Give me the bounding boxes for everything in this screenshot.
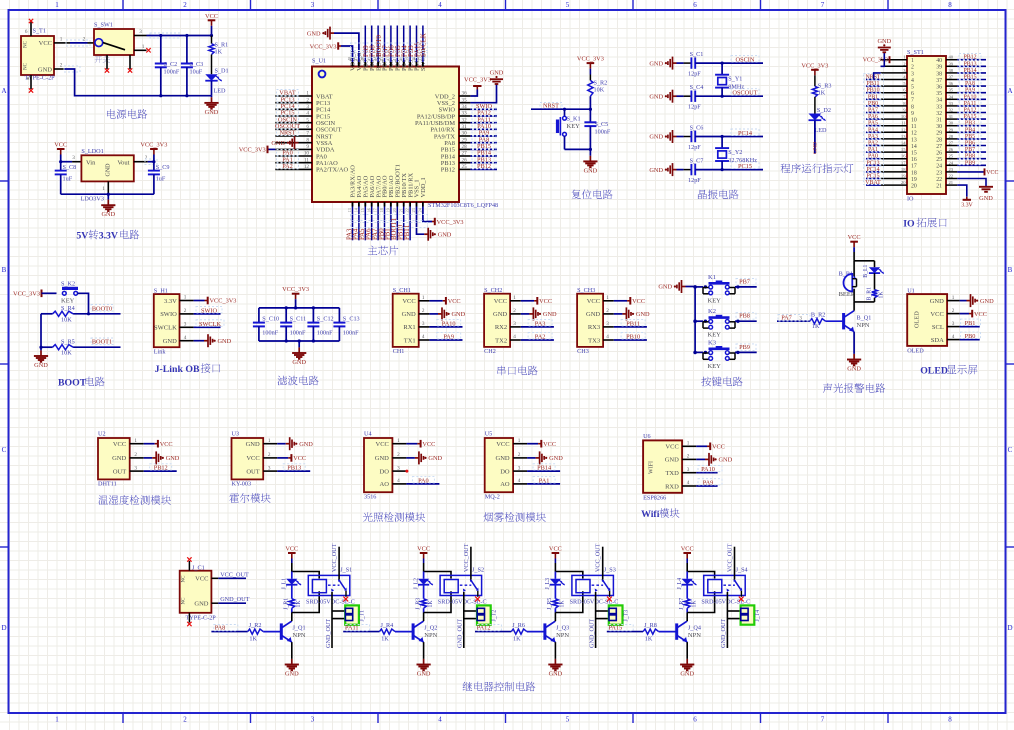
svg-text:18: 18 [911, 170, 917, 176]
net label PB0 [961, 332, 981, 339]
wire pin 46 up [364, 26, 366, 63]
junction crystal tap [721, 135, 724, 138]
svg-text:VCC_3V3: VCC_3V3 [437, 219, 464, 226]
svg-text:J_L2: J_L2 [413, 578, 419, 590]
svg-text:20: 20 [392, 208, 397, 212]
svg-text:3.3V: 3.3V [164, 298, 177, 305]
ground GND for S_C4 [673, 95, 677, 97]
pin 33 of S_U1 [459, 115, 470, 117]
wire key K3 to net PB9 [735, 351, 757, 353]
svg-text:GND_OUT: GND_OUT [457, 619, 464, 648]
pin 5 of S_ST1 [881, 85, 907, 87]
wire node down to key [564, 109, 566, 116]
svg-text:GND: GND [299, 441, 313, 448]
no-connect X bottom of J_C1 [187, 622, 191, 626]
power VCC on S_CH3 pin 1 [614, 300, 627, 302]
pin 16 of S_ST1 [881, 158, 907, 160]
net label PA11 [346, 625, 370, 631]
power VCC on U4 pin 1 [406, 443, 417, 445]
wire to net label PA8 [957, 85, 986, 87]
wire pin 45 up [371, 26, 373, 63]
svg-text:18: 18 [901, 167, 906, 172]
net label NRST [540, 103, 562, 109]
svg-text:J_R7: J_R7 [679, 598, 685, 610]
wire R3 to LED D2 [814, 97, 816, 114]
svg-text:SWIO: SWIO [160, 311, 177, 318]
junction trunk K1 [693, 285, 697, 289]
svg-text:S_C3: S_C3 [190, 61, 204, 68]
pin 2 of S_CH3 [603, 313, 614, 315]
net label PB13 [283, 464, 305, 470]
capacitor S_C7 12pF [690, 164, 692, 175]
wire to net label PB1 [866, 98, 881, 100]
net label PA10 [437, 319, 461, 326]
no-connect X top of J_C1 [187, 557, 191, 561]
svg-text:PA11: PA11 [345, 625, 359, 632]
svg-text:10: 10 [304, 151, 310, 157]
power VCC_3V3 reset [587, 62, 595, 64]
net label PC15 [277, 110, 299, 116]
frame row ticks right [1006, 180, 1014, 182]
pin 2 of S_U1 [275, 102, 312, 104]
svg-text:DO: DO [500, 468, 510, 475]
wire GND_OUT [218, 602, 246, 604]
svg-text:PA11: PA11 [964, 101, 977, 107]
pin 18 of S_U1 [384, 202, 386, 207]
title 滤波电路 [277, 376, 287, 386]
svg-text:S_C10: S_C10 [262, 315, 279, 322]
svg-text:A: A [1, 87, 6, 95]
net label PB15 [959, 73, 981, 79]
svg-text:Vin: Vin [86, 159, 96, 166]
net label PB14 [959, 67, 981, 73]
pin 21 of S_U1 [403, 202, 405, 207]
net label PB1 [864, 93, 884, 99]
relay common wire VCC_OUT [338, 547, 340, 580]
svg-text:GND: GND [417, 671, 431, 678]
pin 25 of S_ST1 [946, 158, 957, 160]
svg-text:100nF: 100nF [595, 129, 611, 136]
svg-text:J_S4: J_S4 [736, 567, 748, 574]
wire LED down [814, 121, 816, 154]
wire to net label PA9 [696, 485, 717, 487]
svg-text:B: B [1008, 266, 1013, 274]
wire to net label PA1 [866, 151, 881, 153]
pin 3 of U4 [392, 470, 406, 472]
svg-text:1K: 1K [428, 600, 434, 608]
svg-text:CH2: CH2 [484, 348, 496, 355]
svg-text:11: 11 [304, 157, 309, 163]
svg-text:RX1: RX1 [403, 324, 415, 331]
svg-text:IO: IO [903, 219, 915, 230]
svg-text:S_C4: S_C4 [690, 84, 704, 91]
wire VCC to R2 [589, 69, 591, 75]
svg-text:GND_OUT: GND_OUT [588, 619, 595, 648]
pin 23 of S_U1 [416, 202, 418, 207]
ground GND on S_CH1 pin 2 [429, 313, 438, 315]
capacitor S_C5 100nF [589, 109, 591, 122]
wire pin 14 down [358, 207, 360, 241]
svg-text:S_D1: S_D1 [215, 68, 229, 75]
net label PB7 [736, 278, 756, 285]
svg-text:GND: GND [292, 359, 306, 366]
capacitor S_C11 100nF [285, 308, 287, 323]
power VCC on U5 pin 1 [527, 443, 538, 445]
pin 3 of U3 [263, 470, 277, 472]
wire left rail to R4 [41, 313, 53, 315]
svg-text:36: 36 [462, 91, 468, 97]
wire input net PA12 [475, 631, 511, 633]
svg-text:PA2/TX/AO: PA2/TX/AO [316, 167, 348, 174]
wire alarm bottom rail [854, 301, 874, 303]
ground GND on VSS_1 pin 23 [417, 207, 425, 235]
junction bottom C11 [285, 339, 288, 342]
pin 31 of S_ST1 [946, 118, 957, 120]
wire alarm top rail [854, 260, 874, 262]
svg-text:GND: GND [649, 93, 663, 100]
svg-text:S_H1: S_H1 [154, 287, 168, 294]
pin 14 of S_ST1 [881, 145, 907, 147]
svg-text:34: 34 [462, 104, 468, 110]
no-connect X on switch pin 1 [146, 48, 150, 52]
svg-text:3: 3 [422, 321, 425, 327]
svg-text:RXD: RXD [665, 483, 679, 490]
svg-text:40: 40 [936, 58, 942, 64]
svg-text:B_Q1: B_Q1 [857, 314, 872, 321]
pin 2 of S_ST1 [881, 65, 907, 67]
pin 1 of U6 [682, 445, 696, 447]
wire on S_ST1 pin 3 [874, 73, 881, 80]
power VCC_3V3 on S_ST1 pin 1 [889, 56, 891, 63]
wire pin 43 up [384, 26, 386, 63]
wire pin 17 down [377, 207, 379, 241]
svg-text:GND: GND [496, 455, 510, 462]
svg-text:3: 3 [518, 465, 521, 471]
pin 4 of U1 [947, 339, 960, 341]
wire key K1 to net PB7 [735, 286, 757, 288]
wire to net label PB3 [957, 125, 986, 127]
svg-text:GND: GND [549, 455, 563, 462]
junction trunk K3 [693, 351, 697, 355]
svg-text:GND: GND [719, 457, 733, 464]
pin 1 of S_CH2 [510, 300, 521, 302]
svg-text:25: 25 [462, 164, 468, 170]
wire pin 18 down [384, 207, 386, 241]
svg-text:S_R4: S_R4 [61, 305, 75, 312]
svg-text:KY-003: KY-003 [232, 481, 252, 488]
svg-text:4: 4 [911, 78, 914, 84]
wire trunk to key K3 [695, 351, 703, 353]
svg-text:S_T1: S_T1 [33, 28, 46, 35]
title 晶振电路 [698, 190, 707, 199]
wire R2 to node [589, 96, 591, 109]
net label OSCIN [277, 116, 299, 122]
svg-text:4: 4 [606, 334, 609, 340]
unconnected pin 3 of U4 [405, 470, 408, 473]
svg-text:PC15: PC15 [866, 174, 879, 180]
value label 开关 of S_SW1 [95, 56, 102, 63]
wire rail to collector [853, 302, 855, 311]
no-connect X relay NO contact [609, 591, 611, 597]
pin 2 of S_H1 [180, 313, 194, 315]
wire to net label PA2 [521, 339, 554, 341]
svg-text:OLED: OLED [907, 348, 924, 355]
junction top C12 [312, 306, 315, 309]
svg-text:21: 21 [398, 208, 403, 212]
svg-text:3.3V: 3.3V [99, 231, 118, 242]
svg-text:8: 8 [911, 104, 914, 110]
net label PA10 [472, 123, 496, 129]
svg-text:NPN: NPN [424, 632, 437, 639]
no-connect X relay NO contact [345, 591, 347, 597]
pin 1 of switch S_SW1 [134, 49, 147, 51]
svg-text:19: 19 [901, 174, 906, 179]
pin 3 of U6 [682, 472, 696, 474]
svg-text:PB6: PB6 [965, 141, 975, 147]
net label PC13 [864, 159, 884, 165]
wire GND to S_C4 [677, 95, 684, 97]
svg-text:LED: LED [214, 88, 227, 95]
wire to terminal pin 2 [727, 618, 740, 620]
svg-text:VCC: VCC [417, 546, 430, 553]
svg-text:2: 2 [83, 36, 86, 42]
wire collector [554, 613, 556, 622]
pin 37 of S_U1 [422, 62, 424, 67]
svg-text:PA9: PA9 [965, 88, 975, 94]
svg-text:3516: 3516 [364, 493, 376, 500]
ground GND for S_C7 [673, 169, 677, 171]
wire VCC to Vin [61, 161, 72, 163]
svg-text:2: 2 [513, 308, 516, 314]
svg-text:GND: GND [549, 671, 563, 678]
svg-text:26: 26 [462, 157, 468, 163]
svg-text:2: 2 [306, 97, 309, 103]
svg-text:6: 6 [693, 1, 697, 9]
junction VCC rail [210, 34, 213, 37]
svg-text:1K: 1K [879, 291, 885, 299]
svg-text:21: 21 [936, 184, 942, 190]
svg-text:DO: DO [380, 468, 390, 475]
svg-text:GND: GND [649, 60, 663, 67]
wire left rail to R5 [41, 346, 53, 348]
wire to net label PB7 [957, 151, 986, 153]
ground GND on S_CH2 pin 2 [521, 313, 530, 315]
wire LED to J_R3 [423, 585, 425, 599]
svg-text:STM32F103C8T6_LQFP48: STM32F103C8T6_LQFP48 [428, 202, 498, 209]
power VCC on S_CH2 pin 1 [521, 300, 534, 302]
svg-text:8: 8 [948, 1, 952, 9]
svg-text:10K: 10K [61, 350, 72, 357]
net label PA12 [472, 110, 496, 116]
ground GND on U2 pin 2 [144, 457, 153, 459]
svg-text:C: C [2, 446, 7, 454]
svg-text:S_C11: S_C11 [290, 315, 307, 322]
wire J_R6 to base [527, 631, 545, 633]
wire Vout to VCC_3V3 [145, 159, 157, 165]
net label PA3 [864, 133, 884, 139]
svg-text:35: 35 [949, 88, 954, 93]
svg-text:VCC: VCC [448, 298, 461, 305]
svg-text:1: 1 [518, 438, 521, 444]
resistor J_R8 1K [643, 629, 659, 634]
pin 3 of switch S_SW1 [134, 35, 147, 37]
power VCC top of rail [208, 19, 216, 21]
svg-text:2: 2 [134, 452, 137, 458]
svg-text:3: 3 [311, 1, 315, 9]
svg-text:VCC: VCC [543, 441, 556, 448]
svg-text:18: 18 [379, 208, 384, 212]
pin 31 of S_U1 [459, 128, 470, 130]
pin 29 of S_ST1 [946, 131, 957, 133]
svg-text:VCC: VCC [496, 441, 509, 448]
svg-text:VCC: VCC [39, 40, 52, 47]
svg-text:VCC: VCC [246, 455, 259, 462]
svg-text:GND_OUT: GND_OUT [720, 619, 727, 648]
pin 2 of U2 [130, 457, 144, 459]
pin 3 of U2 [130, 470, 144, 472]
svg-text:GND: GND [979, 195, 993, 202]
svg-text:PB3: PB3 [965, 121, 975, 127]
svg-text:VCC_3V3: VCC_3V3 [13, 291, 40, 298]
net label VBAT [277, 90, 299, 96]
net label VBAT [864, 179, 884, 185]
svg-text:2: 2 [952, 308, 955, 314]
relay NC contact wire [463, 592, 465, 648]
wire to net label PC13 [866, 164, 881, 166]
svg-text:S_C13: S_C13 [343, 315, 360, 322]
wire to net label PB0 [960, 339, 980, 341]
svg-text:J_R5: J_R5 [547, 598, 553, 610]
wire base to R2 [826, 320, 844, 322]
svg-text:PA7: PA7 [868, 108, 878, 114]
pin 20 of S_U1 [396, 202, 398, 207]
wire J_R2 to base [263, 631, 281, 633]
no-connect X on S_T1 pin 5 [29, 88, 33, 92]
pin 46 of S_U1 [364, 62, 366, 67]
title 电源电路 [107, 109, 116, 118]
svg-text:GND: GND [584, 167, 598, 174]
svg-text:PB12: PB12 [441, 167, 455, 174]
pin 3 of S_CH2 [510, 326, 521, 328]
svg-text:32.768KHz: 32.768KHz [728, 157, 757, 164]
svg-text:1: 1 [60, 36, 63, 42]
svg-text:3: 3 [397, 465, 400, 471]
wire to net label PB13 [470, 162, 497, 164]
svg-text:S_Y2: S_Y2 [728, 149, 742, 156]
svg-text:PB0: PB0 [868, 101, 878, 107]
svg-text:29: 29 [949, 127, 954, 132]
junction at key K2 output [736, 320, 739, 323]
pin 13 of S_ST1 [881, 138, 907, 140]
power 3.3V on S_ST1 pin 21 [957, 185, 967, 197]
svg-text:TXD: TXD [665, 470, 679, 477]
pin 3 of S_CH1 [419, 326, 430, 328]
svg-text:VCC_3V3: VCC_3V3 [239, 147, 266, 154]
pin 6 of S_ST1 [881, 92, 907, 94]
svg-text:PB10: PB10 [866, 88, 879, 94]
svg-text:PA2: PA2 [868, 141, 878, 147]
power VCC on U6 pin 1 [696, 445, 707, 447]
title 温湿度检测模块 [98, 495, 108, 504]
svg-text:S_ST1: S_ST1 [907, 49, 924, 56]
net label PB1 [961, 319, 981, 326]
svg-text:CH3: CH3 [577, 348, 589, 355]
svg-text:GND: GND [38, 66, 52, 73]
svg-text:U3: U3 [232, 431, 240, 438]
pin 4 of S_CH3 [603, 339, 614, 341]
wire pin 13 down [352, 207, 354, 241]
ground GND below power rail [211, 96, 213, 98]
pin 2 of switch S_SW1 [88, 42, 95, 44]
svg-text:PA3: PA3 [868, 134, 878, 140]
pin 3 of U1 [947, 326, 960, 328]
svg-text:KEY: KEY [708, 363, 722, 370]
power VCC relay ch2 [420, 552, 428, 554]
ground GND relay ch2 [423, 659, 425, 665]
pin 10 of S_ST1 [881, 118, 907, 120]
net label PB11 [864, 80, 884, 86]
relay common wire VCC_OUT [734, 547, 736, 580]
svg-text:KEY: KEY [567, 123, 581, 130]
wire to net label PA10 [429, 326, 462, 328]
ground GND for S_C6 [673, 136, 677, 138]
pin 4 of U6 [682, 485, 696, 487]
svg-text:VCC: VCC [54, 142, 67, 149]
svg-text:3: 3 [911, 71, 914, 77]
title 烟雾检测模块 [484, 512, 494, 521]
svg-text:7: 7 [306, 131, 309, 137]
svg-text:2: 2 [606, 308, 609, 314]
svg-text:ESP8266: ESP8266 [643, 495, 666, 502]
ground GND filter [298, 341, 300, 347]
wire collector [291, 613, 293, 622]
svg-text:7: 7 [821, 1, 825, 9]
wire GND of T1 to bottom rail [64, 66, 80, 72]
svg-text:3: 3 [513, 321, 516, 327]
pin 2 of S_CH1 [419, 313, 430, 315]
ground GND on U1 pin 1 [960, 300, 967, 302]
title 继电器控制电路 [463, 682, 473, 691]
net label PA0 [864, 153, 884, 159]
title 串口电路 [497, 366, 505, 376]
svg-text:1uF: 1uF [156, 176, 166, 183]
svg-text:GND: GND [285, 671, 299, 678]
title 霍尔模块 [229, 493, 239, 502]
wire to net label PB13 [277, 470, 310, 472]
svg-text:K3: K3 [708, 339, 716, 346]
svg-text:4: 4 [397, 478, 400, 484]
module U3 KY-003 [232, 438, 264, 479]
svg-text:J_R4: J_R4 [381, 622, 394, 629]
pin 32 of S_U1 [459, 122, 470, 124]
svg-text:VCC: VCC [632, 298, 645, 305]
svg-text:GND: GND [649, 167, 663, 174]
svg-text:PB7: PB7 [739, 278, 750, 285]
net label PA7 [778, 315, 810, 322]
svg-text:36: 36 [949, 81, 954, 86]
net label PB5 [959, 133, 981, 139]
svg-text:39: 39 [936, 65, 942, 71]
connector S_H1 J-Link [154, 294, 180, 347]
svg-text:VCC: VCC [539, 298, 552, 305]
svg-text:PB4: PB4 [965, 127, 975, 133]
terminal block J_T3 [609, 605, 623, 624]
net label PB7 [959, 146, 981, 152]
svg-text:PB14: PB14 [963, 68, 976, 74]
svg-text:PB14: PB14 [537, 465, 552, 472]
svg-text:33: 33 [936, 104, 942, 110]
svg-text:PA3: PA3 [535, 320, 546, 327]
